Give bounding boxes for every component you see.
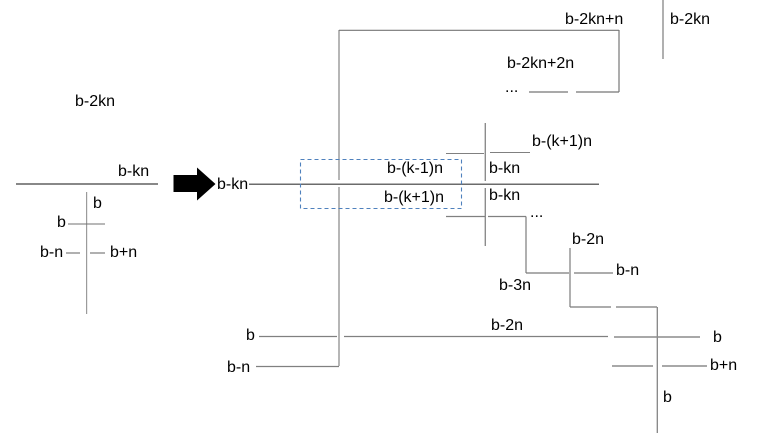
label b-2kn+2n — [507, 56, 574, 72]
label b-2kn top right — [670, 12, 710, 28]
label b-(k+1)n right — [532, 134, 592, 150]
label b-kn left — [118, 164, 149, 180]
wire y273 segment right b-n — [574, 272, 613, 274]
wire left horizontal b-kn line — [16, 183, 158, 185]
label b-kn lower — [489, 188, 520, 204]
dashed box — [301, 160, 462, 209]
wire y307 segment right — [616, 306, 657, 308]
label b+n left — [110, 245, 137, 261]
wire left short b line — [68, 223, 105, 225]
wire staircase vertical x570 — [569, 248, 571, 307]
wire y92 segment right — [576, 91, 619, 93]
label b-2kn left — [75, 94, 115, 110]
label b-n bottom left — [227, 360, 250, 376]
wire y307 segment left — [570, 306, 611, 308]
wire y366 bottom right segment right b+n — [662, 365, 707, 367]
label b bottom left — [246, 328, 255, 344]
wire left vertical — [86, 192, 88, 314]
wire y273 segment left b-3n — [526, 272, 569, 274]
wire top right vertical — [618, 30, 620, 92]
label b right of vertical — [663, 390, 672, 406]
wire y152 segment right b-(k+1)n — [490, 152, 530, 154]
wire main horizontal b-kn line — [249, 183, 599, 185]
wire y366 bottom right segment left — [612, 365, 653, 367]
label b-kn upper — [489, 161, 520, 177]
label b-(k-1)n in box — [387, 161, 443, 177]
label b-n staircase — [616, 263, 639, 279]
wire left short b+n line — [90, 252, 105, 254]
label b left — [57, 215, 66, 231]
wire top horizontal b-2kn+n line — [339, 29, 619, 31]
wire staircase vertical x526 — [525, 217, 527, 274]
label dots middle — [530, 205, 543, 221]
arrow black right-pointing — [174, 168, 216, 201]
wire y153 segment left — [446, 153, 484, 155]
wire far top right vertical b-2kn — [662, 0, 664, 59]
wire bottom right vertical x657 — [656, 307, 658, 433]
wire bottom b-n line — [256, 366, 339, 368]
wire vertical x485 lower — [484, 188, 486, 246]
wire vertical x485 upper — [484, 123, 486, 181]
label b-3n — [499, 278, 531, 294]
label b-kn at arrow — [217, 177, 248, 193]
wire bottom b line — [259, 336, 337, 338]
label b-2kn+n top — [565, 12, 623, 28]
label b-2n long line — [491, 318, 523, 334]
label b-n left — [40, 245, 63, 261]
wire y216 segment left — [446, 216, 485, 218]
wire bottom long b-2n line — [344, 336, 608, 338]
label b-(k+1)n in box — [384, 190, 444, 206]
wire left short b-n line — [66, 252, 80, 254]
label b+n bottom right — [710, 358, 737, 374]
wire y92 segment left — [529, 91, 568, 93]
wire bottom right b line — [614, 336, 700, 338]
label b bottom right — [713, 330, 722, 346]
wire tall vertical lower segment — [338, 187, 340, 366]
label dots top — [505, 80, 518, 96]
wire tall vertical upper segment — [338, 30, 340, 180]
label b under left line — [93, 196, 102, 212]
label b-2n staircase — [572, 232, 604, 248]
wire y216 segment right — [488, 216, 526, 218]
